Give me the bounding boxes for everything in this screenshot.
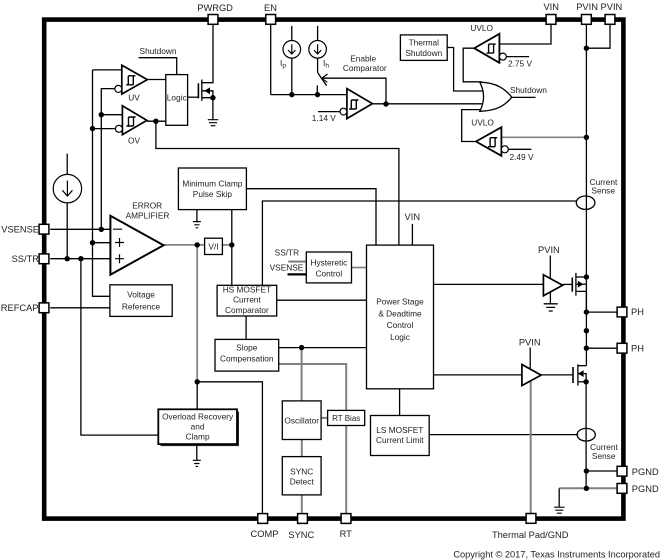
- svg-text:1.14 V: 1.14 V: [312, 113, 336, 123]
- wire EA output to V/I: [164, 244, 205, 246]
- wire COMP branch: [197, 382, 262, 514]
- svg-text:SYNC: SYNC: [290, 466, 313, 476]
- svg-text:Compensation: Compensation: [220, 354, 274, 364]
- current sense 1: [576, 196, 595, 209]
- comparator UVLO1: [474, 34, 506, 63]
- wire power stage to LS current limit: [399, 389, 401, 416]
- svg-text:2.49 V: 2.49 V: [510, 152, 534, 162]
- block Overload Recovery and Clamp: [158, 409, 237, 444]
- node EN-Ip: [289, 92, 294, 97]
- current source Ip: [283, 41, 301, 59]
- node overload-SSTR: [78, 256, 83, 261]
- svg-text:Overload Recovery: Overload Recovery: [162, 412, 234, 422]
- svg-text:and: and: [191, 422, 205, 432]
- wire LS current limit to current sense: [429, 434, 578, 436]
- wire V/I output: [222, 244, 231, 246]
- svg-text:Comparator: Comparator: [225, 305, 269, 315]
- wire hysteretic SS/TR stub: [288, 261, 306, 263]
- wire 1.14V stub: [318, 111, 340, 113]
- svg-text:Control: Control: [387, 320, 414, 330]
- svg-text:Current: Current: [233, 295, 261, 305]
- node LS source: [583, 379, 588, 384]
- wire enable comparator output: [372, 103, 482, 105]
- svg-text:Minimum Clamp: Minimum Clamp: [182, 179, 242, 189]
- node OV plus: [99, 112, 104, 117]
- svg-text:VSENSE: VSENSE: [270, 263, 304, 273]
- pin PVIN2: [605, 15, 615, 25]
- wire sync detect to SYNC pin: [301, 495, 303, 514]
- wire power stage to LS driver: [434, 374, 522, 376]
- transistor HS MOSFET: [563, 273, 587, 312]
- block Minimum Clamp Pulse Skip: [178, 168, 246, 210]
- wire PH1: [586, 311, 617, 313]
- pin VSENSE: [39, 224, 49, 234]
- block Voltage Reference: [110, 285, 172, 317]
- BOXES: [110, 35, 447, 495]
- wire UVLO1 output to OR: [463, 48, 481, 82]
- wire UV plus input: [93, 69, 122, 71]
- comparator Enable: [340, 89, 372, 119]
- svg-text:UV: UV: [128, 93, 140, 103]
- svg-text:& Deadtime: & Deadtime: [378, 309, 422, 319]
- wire UV output: [148, 79, 166, 81]
- svg-text:PVIN: PVIN: [538, 245, 560, 255]
- wire VIN stub power stage: [411, 224, 413, 245]
- wire UVLO2 output to OR: [462, 110, 482, 142]
- svg-text:Detect: Detect: [290, 477, 315, 487]
- node PVIN join: [584, 46, 589, 51]
- node PGND1: [584, 468, 589, 473]
- svg-text:PH: PH: [631, 343, 644, 353]
- wire UVLO2 PVIN input: [501, 136, 586, 138]
- svg-text:LS MOSFET: LS MOSFET: [376, 425, 423, 435]
- wire Ih stubs: [317, 26, 319, 73]
- node COMP branch: [195, 379, 200, 384]
- wire OV output: [147, 120, 166, 122]
- pin RT: [341, 514, 351, 524]
- wire EN drop: [270, 25, 272, 95]
- svg-text:PVIN: PVIN: [519, 338, 541, 348]
- ground min clamp: [196, 210, 198, 222]
- comparator UV: [115, 65, 148, 94]
- svg-text:AMPLIFIER: AMPLIFIER: [126, 210, 170, 220]
- wire LS driver to thermal pad: [530, 381, 532, 515]
- wire 2.49V stub: [508, 148, 531, 150]
- svg-text:Control: Control: [316, 269, 343, 279]
- wire EN to enable comparator: [271, 94, 347, 96]
- driver HS buffer: [543, 275, 562, 296]
- wire slope comp output: [279, 347, 367, 349]
- wire shutdown net stub top-left: [139, 58, 177, 75]
- WIRES_GRAY: [164, 137, 587, 515]
- svg-text:REFCAP: REFCAP: [1, 303, 39, 313]
- node slope out: [299, 345, 304, 350]
- wire hysteretic VSENSE stub: [288, 273, 307, 275]
- svg-text:Ip: Ip: [280, 58, 286, 70]
- node OV bubble: [90, 126, 95, 131]
- svg-text:Thermal Pad/GND: Thermal Pad/GND: [492, 530, 569, 540]
- pin PGND1 sq: [617, 466, 627, 476]
- svg-text:Comparator: Comparator: [343, 63, 387, 73]
- svg-text:OV: OV: [128, 136, 140, 146]
- svg-text:PVIN: PVIN: [601, 2, 623, 12]
- wire REFCAP line: [50, 307, 110, 309]
- wire Ip stubs: [291, 26, 293, 95]
- node V/I out: [229, 242, 234, 247]
- wire hysteretic output: [352, 267, 367, 269]
- block Oscillator: [282, 401, 321, 440]
- svg-text:Power Stage: Power Stage: [376, 297, 424, 307]
- block Logic: [166, 75, 188, 126]
- svg-text:COMP: COMP: [251, 529, 279, 539]
- pin PH2 sq: [617, 343, 627, 353]
- svg-text:PGND: PGND: [632, 467, 659, 477]
- block SYNC Detect: [282, 457, 321, 495]
- MOSFET_PWRGD Q1: [188, 80, 213, 120]
- node EA out: [195, 242, 200, 247]
- pin VIN: [546, 15, 556, 25]
- wire PH2: [586, 347, 617, 349]
- wire switch control feedback: [322, 78, 386, 104]
- comparator OV: [115, 106, 146, 135]
- wire thermal shutdown to OR: [447, 48, 483, 92]
- svg-text:PGND: PGND: [632, 484, 659, 494]
- svg-text:Copyright © 2017, Texas Instru: Copyright © 2017, Texas Instruments Inco…: [453, 550, 660, 560]
- svg-text:SYNC: SYNC: [288, 530, 314, 540]
- block RT Bias: [328, 410, 365, 425]
- block V/I: [205, 238, 223, 254]
- wire switch lower stub: [316, 85, 318, 94]
- block HS MOSFET Current Comparator: [217, 285, 277, 316]
- svg-text:VIN: VIN: [405, 212, 421, 222]
- svg-text:V/I: V/I: [208, 241, 218, 251]
- svg-text:SS/TR: SS/TR: [275, 248, 299, 258]
- wire LS source down: [585, 382, 587, 489]
- svg-text:Slope: Slope: [236, 343, 258, 353]
- wire PVIN1 drop: [585, 25, 587, 366]
- wire PGND ground stub: [558, 488, 560, 507]
- wire HS comparator output: [277, 299, 367, 301]
- block Hysteretic Control: [306, 252, 351, 283]
- node B-VSENSE: [99, 227, 104, 232]
- wire A to EA plus: [93, 242, 111, 244]
- wire power stage to HS driver: [434, 283, 544, 285]
- ground HS driver: [544, 304, 558, 311]
- svg-text:UVLO: UVLO: [470, 23, 493, 33]
- comparator UVLO2: [476, 127, 508, 156]
- wire HS driver ground stub: [549, 292, 551, 303]
- pin PGND2 sq: [617, 484, 627, 494]
- node A-EAplus: [90, 240, 95, 245]
- node EN-Ih: [315, 92, 320, 97]
- wire min clamp to V/I node to HS comparator: [231, 210, 233, 286]
- svg-text:HS MOSFET: HS MOSFET: [223, 285, 271, 295]
- svg-text:2.75 V: 2.75 V: [508, 59, 532, 69]
- wire PWRGD drop: [202, 24, 213, 82]
- node PH1: [584, 309, 589, 314]
- svg-text:Sense: Sense: [592, 451, 616, 461]
- pin PH1 sq: [617, 307, 627, 317]
- wire PGND2 to ground: [559, 487, 586, 489]
- pin SS/TR: [39, 254, 49, 264]
- svg-text:Pulse Skip: Pulse Skip: [193, 189, 233, 199]
- block Slope Compensation: [215, 339, 279, 371]
- node UVLO2 tap: [584, 135, 589, 140]
- svg-text:Shutdown: Shutdown: [140, 46, 177, 56]
- current source soft start: [53, 174, 81, 202]
- svg-text:RT Bias: RT Bias: [332, 414, 360, 423]
- driver LS buffer: [522, 365, 541, 386]
- pin Thermal Pad: [526, 514, 536, 524]
- node HS drain: [584, 274, 589, 279]
- wire left current source stubs: [66, 154, 68, 259]
- ground PGND: [554, 507, 564, 513]
- svg-text:EN: EN: [264, 3, 277, 13]
- pin SYNC: [298, 514, 308, 524]
- block Overload Recovery and Clamp shadow: [161, 412, 240, 447]
- switch blade: [318, 73, 327, 86]
- wire OV plus input: [101, 114, 122, 116]
- svg-text:Shutdown: Shutdown: [405, 48, 442, 58]
- svg-text:Thermal: Thermal: [409, 38, 440, 48]
- svg-text:Current Limit: Current Limit: [376, 435, 424, 445]
- pin PVIN1: [582, 15, 592, 25]
- node PWRGD source: [210, 95, 215, 100]
- node mid rail: [584, 328, 589, 333]
- wire right rail mid: [578, 365, 587, 367]
- node csrc-SSTR: [65, 256, 70, 261]
- svg-text:ERROR: ERROR: [132, 200, 162, 210]
- svg-text:Hysteretic: Hysteretic: [310, 258, 347, 268]
- wire HS driver PVIN stub: [549, 256, 551, 279]
- node PGND2: [584, 486, 589, 491]
- svg-text:Oscillator: Oscillator: [284, 415, 319, 425]
- wire HS comp to slope comp: [245, 316, 247, 339]
- block LS MOSFET Current Limit: [371, 416, 430, 456]
- svg-text:PH: PH: [631, 307, 644, 317]
- transistor LS MOSFET: [541, 364, 586, 385]
- svg-text:PVIN: PVIN: [576, 2, 598, 12]
- switch arrowhead: [322, 74, 328, 82]
- chip border frame: [44, 20, 623, 519]
- ground overload recovery: [196, 444, 198, 460]
- svg-text:VSENSE: VSENSE: [1, 225, 39, 235]
- ground PWRGD mosfet: [208, 120, 218, 126]
- current source Ih: [309, 41, 327, 59]
- svg-text:Ih: Ih: [323, 58, 329, 70]
- svg-text:SS/TR: SS/TR: [12, 254, 40, 264]
- wire VIN to UVLO: [499, 25, 551, 44]
- op-amp error amplifier: [110, 216, 163, 275]
- wire OV bubble input: [93, 128, 116, 130]
- wire slope comp to oscillator: [301, 348, 303, 401]
- svg-text:PWRGD: PWRGD: [197, 3, 233, 13]
- svg-text:Clamp: Clamp: [186, 432, 210, 442]
- wire vertical A VSENSE sense chain: [93, 70, 110, 296]
- wire PGND2 gray to pin: [586, 487, 617, 489]
- wire slope comp to RT: [279, 364, 347, 514]
- wire 2.75V stub: [506, 56, 529, 58]
- current sense 2: [577, 428, 595, 441]
- svg-text:Voltage: Voltage: [127, 290, 155, 300]
- wire LS driver PVIN stub: [529, 348, 531, 370]
- wire PVIN2 drop: [586, 25, 610, 48]
- svg-text:Logic: Logic: [167, 92, 187, 102]
- svg-text:Sense: Sense: [591, 185, 615, 195]
- pin PWRGD: [208, 15, 218, 25]
- wire current sense feed: [262, 201, 576, 285]
- pin EN: [266, 15, 276, 25]
- svg-text:Logic: Logic: [390, 332, 410, 342]
- wire oscillator to RT bias: [321, 417, 328, 419]
- wire UV bubble input / vertical B: [101, 89, 115, 230]
- wire COMP gray vertical: [196, 245, 198, 382]
- wire OV junction to power stage: [156, 121, 399, 245]
- wire shutdown output: [512, 96, 536, 98]
- gate OR shutdown: [480, 82, 512, 111]
- svg-text:UVLO: UVLO: [471, 118, 494, 128]
- svg-text:Reference: Reference: [122, 302, 161, 312]
- wire min clamp output to power stage: [246, 189, 376, 245]
- svg-text:Enable: Enable: [350, 54, 376, 64]
- wire SS/TR to overload recovery: [81, 259, 158, 435]
- wire SS/TR line: [50, 258, 110, 260]
- block Power Stage Deadtime Control Logic: [367, 245, 434, 389]
- node PH2: [584, 346, 589, 351]
- WIRES_BLACK: [50, 24, 617, 513]
- svg-text:VIN: VIN: [543, 2, 559, 12]
- wire oscillator to sync detect: [301, 440, 303, 457]
- pin COMP: [258, 514, 268, 524]
- svg-text:RT: RT: [340, 529, 353, 539]
- node OV out: [153, 119, 158, 124]
- wire VSENSE line: [50, 228, 110, 230]
- svg-text:Shutdown: Shutdown: [510, 85, 547, 95]
- block Thermal Shutdown: [400, 35, 447, 61]
- node enable out: [383, 101, 388, 106]
- pin REFCAP: [39, 303, 49, 313]
- wire PGND1: [586, 470, 617, 472]
